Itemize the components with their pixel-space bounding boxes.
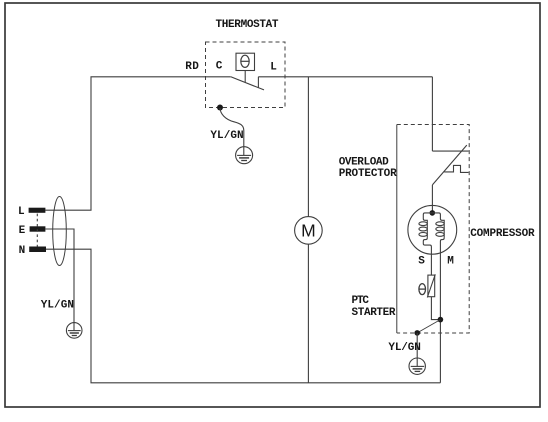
- svg-text:PROTECTOR: PROTECTOR: [339, 168, 397, 180]
- theta symbol (PTC): [419, 284, 426, 295]
- wire N down and along bottom: [46, 249, 440, 383]
- ground G1: [236, 147, 253, 164]
- wire thermostat L to overload branch: [258, 76, 432, 78]
- svg-text:THERMOSTAT: THERMOSTAT: [216, 19, 279, 31]
- svg-text:M: M: [301, 221, 316, 241]
- compressor dashed box: [397, 125, 469, 334]
- main winding coil M: [436, 222, 444, 237]
- thermostat dashed box: [206, 42, 286, 108]
- thermostat L contact post: [257, 77, 259, 88]
- wire start winding to PTC: [423, 238, 431, 275]
- wire main winding down: [440, 238, 444, 383]
- start winding coil S: [419, 222, 427, 237]
- wire to main winding: [432, 213, 444, 238]
- svg-text:S: S: [418, 255, 425, 267]
- thermostat switch blade C to L: [231, 77, 264, 90]
- svg-text:RD: RD: [185, 61, 199, 73]
- svg-text:YL/GN: YL/GN: [41, 299, 74, 311]
- svg-text:YL/GN: YL/GN: [388, 342, 420, 354]
- node winding junction: [430, 210, 436, 216]
- compressor motor circle: [408, 205, 457, 254]
- svg-text:STARTER: STARTER: [352, 307, 396, 319]
- theta symbol in sensor box: [241, 55, 249, 67]
- svg-text:YL/GN: YL/GN: [210, 130, 243, 142]
- svg-text:L: L: [18, 206, 25, 218]
- svg-text:L: L: [270, 62, 277, 74]
- PTC resistor body: [428, 275, 435, 297]
- svg-text:E: E: [19, 225, 26, 237]
- wire curved to ground G1: [220, 108, 244, 147]
- terminal E: [30, 226, 46, 231]
- wire top-left (L terminal to thermostat C contact): [45, 77, 231, 210]
- ground G3: [409, 358, 425, 374]
- motor M circle: [295, 217, 323, 245]
- sensor stem to switch blade: [244, 71, 246, 83]
- wire shell to ground G3: [416, 333, 418, 358]
- svg-text:OVERLOAD: OVERLOAD: [339, 157, 389, 169]
- overload switch blade: [432, 145, 466, 185]
- svg-text:PTC: PTC: [352, 295, 370, 307]
- svg-text:C: C: [216, 61, 223, 73]
- node shell ground on box edge: [414, 330, 420, 336]
- wire motor bottom: [307, 244, 309, 383]
- wire shell ground diagonal: [417, 320, 440, 333]
- cable ellipse: [53, 197, 67, 266]
- svg-text:COMPRESSOR: COMPRESSOR: [470, 228, 535, 240]
- overload fixed contact: [432, 150, 468, 152]
- wire to start winding: [423, 213, 432, 238]
- compressor box solid left edge: [396, 125, 398, 334]
- node PTC/main junction: [438, 317, 444, 323]
- wire E to ground G2: [45, 229, 74, 323]
- dashed link between terminals: [36, 214, 38, 247]
- terminal N: [29, 247, 46, 253]
- svg-text:M: M: [447, 255, 454, 267]
- overload bimetal bump: [444, 165, 468, 172]
- ground G2: [66, 323, 82, 339]
- wire overload branch down: [431, 77, 433, 151]
- wire PTC bottom to junction: [431, 297, 440, 320]
- wire blade to motor node: [431, 185, 433, 211]
- svg-text:N: N: [19, 245, 26, 257]
- wire motor branch top: [307, 77, 309, 217]
- terminal L: [29, 208, 46, 213]
- PTC diagonal: [427, 274, 435, 297]
- node thermostat ground junction: [217, 105, 223, 111]
- thermostat sensor box: [236, 53, 255, 70]
